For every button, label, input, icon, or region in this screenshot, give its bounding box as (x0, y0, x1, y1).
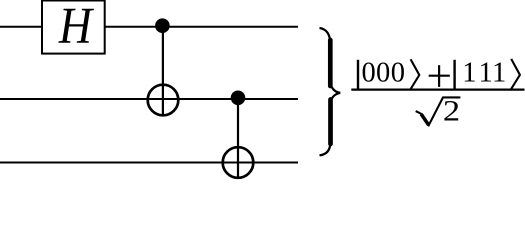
plus (429, 75, 450, 77)
CNOT2 control line (237, 98, 239, 179)
svg-text:1: 1 (492, 57, 506, 88)
wire q1 (0, 98, 298, 100)
svg-text:0: 0 (376, 57, 390, 88)
brace (320, 28, 341, 155)
brace stem upper (328, 40, 333, 86)
CNOT1 target (148, 85, 179, 116)
svg-text:1: 1 (479, 57, 493, 88)
rangle 2 (510, 59, 520, 90)
gate H box (42, 1, 105, 54)
svg-text:0: 0 (362, 57, 376, 88)
svg-text:1: 1 (462, 57, 476, 88)
brace stem lower (328, 100, 333, 145)
svg-text:H: H (58, 0, 94, 55)
wire q0 (0, 26, 298, 28)
CNOT2 target (223, 147, 254, 178)
svg-text:0: 0 (391, 57, 405, 88)
svg-text:2: 2 (443, 94, 460, 127)
ket bar 1 (357, 60, 359, 90)
ket bar 2 (453, 60, 455, 91)
radical (416, 97, 461, 125)
CNOT2 control dot (231, 91, 246, 106)
rangle 1 (410, 59, 419, 90)
CNOT1 control dot (155, 18, 170, 33)
wire q2 (0, 162, 298, 164)
CNOT1 control line (162, 27, 164, 117)
fraction bar (351, 88, 524, 90)
